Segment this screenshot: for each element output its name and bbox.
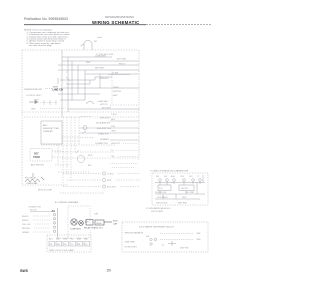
svg-text:THERMOSTAT SW: THERMOSTAT SW	[24, 88, 42, 91]
svg-text:DEFROST TMR: DEFROST TMR	[43, 128, 59, 130]
svg-text:B/W: B/W	[197, 233, 201, 235]
svg-text:SWITCH BRN: SWITCH BRN	[151, 211, 164, 213]
svg-text:ADV MOTOR: ADV MOTOR	[31, 164, 44, 167]
svg-text:GRN: GRN	[63, 239, 68, 241]
svg-text:Publication No. 5995545503: Publication No. 5995545503	[24, 17, 68, 21]
svg-text:ds: ds	[162, 245, 164, 247]
svg-text:see color chart this page: see color chart this page	[29, 44, 52, 47]
svg-text:SWITCH: SWITCH	[113, 91, 121, 93]
svg-text:MOTOR COMP: MOTOR COMP	[38, 190, 53, 192]
svg-text:NUMBER: NUMBER	[100, 139, 109, 141]
svg-text:SW: SW	[146, 236, 149, 238]
svg-text:AH: AH	[52, 210, 56, 213]
svg-text:GREEN: GREEN	[22, 232, 30, 234]
svg-text:BRN: BRN	[77, 239, 82, 241]
svg-text:OVLD: OVLD	[96, 223, 102, 225]
svg-text:CONTROL BRKT: CONTROL BRKT	[26, 95, 42, 97]
svg-text:NO ALARM SW: NO ALARM SW	[96, 121, 110, 124]
svg-text:20: 20	[107, 269, 111, 273]
svg-text:LINE: LINE	[31, 109, 36, 111]
svg-text:RELAY GUARD CKT: RELAY GUARD CKT	[84, 227, 103, 230]
svg-text:COMP MTR: COMP MTR	[70, 229, 81, 231]
svg-text:DEF: DEF	[34, 154, 39, 156]
svg-text:CONNECT AT: CONNECT AT	[95, 142, 108, 145]
svg-text:MTR: MTR	[88, 155, 93, 157]
svg-text:EVAP FAN: EVAP FAN	[98, 100, 108, 103]
svg-text:LIGHT: LIGHT	[113, 87, 120, 89]
svg-text:YEL: YEL	[70, 239, 74, 241]
svg-text:YELLOW: YELLOW	[22, 224, 30, 226]
svg-text:ADV: ADV	[43, 124, 48, 127]
svg-text:NO SETTING: NO SETTING	[125, 246, 138, 248]
svg-text:ICE & WATER DISPENSER CIRCUIT: ICE & WATER DISPENSER CIRCUIT	[139, 225, 175, 228]
svg-text:BWS: BWS	[20, 269, 28, 273]
svg-text:ORN: ORN	[111, 131, 116, 133]
svg-text:SENSOR HARNESS: SENSOR HARNESS	[125, 232, 144, 235]
svg-text:OVERLOAD: OVERLOAD	[26, 182, 38, 185]
svg-text:RED BLK: RED BLK	[100, 78, 109, 80]
svg-text:RUN: RUN	[113, 221, 118, 223]
svg-text:A C WIRING DIAGRAM: A C WIRING DIAGRAM	[55, 201, 78, 204]
svg-text:BLK ORN: BLK ORN	[117, 59, 126, 61]
svg-text:RED: RED	[197, 239, 202, 241]
svg-text:RED: RED	[84, 239, 89, 241]
svg-text:CAP: CAP	[94, 213, 99, 216]
svg-text:SOL: SOL	[159, 188, 163, 190]
svg-text:AUG: AUG	[171, 175, 176, 178]
svg-text:CRU: CRU	[180, 176, 185, 178]
svg-text:PNK: PNK	[111, 126, 116, 128]
svg-text:WHT: WHT	[113, 95, 118, 97]
svg-text:CONNECTOR: CONNECTOR	[28, 207, 41, 209]
svg-text:LT SW: LT SW	[112, 72, 118, 74]
svg-text:SW: SW	[156, 176, 159, 178]
svg-text:BLACK: BLACK	[22, 215, 29, 218]
svg-text:WIRE COLOR CODE CHART: WIRE COLOR CODE CHART	[49, 249, 75, 252]
svg-text:CAP: CAP	[113, 223, 118, 226]
svg-text:GRN: GRN	[182, 197, 187, 199]
svg-text:WIRING SCHEMATIC: WIRING SCHEMATIC	[92, 20, 140, 25]
svg-text:T BLU: T BLU	[111, 114, 117, 116]
svg-text:COND FAN: COND FAN	[95, 54, 106, 57]
svg-text:LT BLU: LT BLU	[107, 174, 114, 176]
svg-text:AS A UNIT CKE: AS A UNIT CKE	[97, 127, 112, 130]
svg-text:PTC RELAY: PTC RELAY	[25, 177, 37, 180]
svg-text:RLY: RLY	[85, 222, 89, 224]
svg-text:DEF LIMIT: DEF LIMIT	[100, 118, 110, 120]
svg-text:BLK WHT: BLK WHT	[102, 108, 112, 110]
svg-text:I C SWITCH KxMxM ICE & WATER D: I C SWITCH KxMxM ICE & WATER DISP	[150, 169, 189, 172]
svg-text:SOL: SOL	[189, 176, 193, 178]
svg-text:WTR VALVE: WTR VALVE	[157, 196, 168, 199]
svg-text:WHT: WHT	[107, 180, 112, 182]
svg-text:DEF HTR: DEF HTR	[111, 143, 120, 145]
svg-text:FRZ LT: FRZ LT	[119, 63, 126, 65]
svg-text:YL: YL	[71, 244, 73, 246]
svg-text:SW: SW	[164, 176, 167, 178]
svg-text:MOTOR: MOTOR	[100, 104, 108, 106]
svg-text:TIME TIME: TIME TIME	[125, 242, 136, 244]
svg-text:TIMER: TIMER	[33, 157, 40, 159]
svg-text:WHITE: WHITE	[22, 220, 29, 222]
svg-text:DRS26ZRGB/D9/W9: DRS26ZRGB/D9/W9	[105, 15, 134, 19]
svg-text:BLK WHT: BLK WHT	[107, 187, 117, 189]
svg-text:BROWN: BROWN	[22, 228, 30, 230]
svg-text:GRN: GRN	[34, 100, 39, 102]
svg-text:WHT: WHT	[86, 62, 91, 64]
svg-text:MOTOR: MOTOR	[181, 188, 189, 190]
svg-text:W MOLD SW: W MOLD SW	[155, 192, 167, 194]
svg-text:RED WHT: RED WHT	[95, 68, 105, 70]
svg-text:BLK WHT: BLK WHT	[186, 192, 195, 194]
svg-text:HTR SW BLK: HTR SW BLK	[156, 203, 168, 205]
svg-text:LINE CD: LINE CD	[53, 88, 64, 92]
svg-text:TERM BD: TERM BD	[43, 131, 53, 133]
svg-text:BLK: BLK	[88, 165, 92, 167]
svg-text:LT GRN WATER VALVE SOL: LT GRN WATER VALVE SOL	[146, 207, 171, 210]
svg-text:WHT BRN: WHT BRN	[178, 203, 187, 205]
svg-text:DISP SW: DISP SW	[180, 248, 189, 250]
